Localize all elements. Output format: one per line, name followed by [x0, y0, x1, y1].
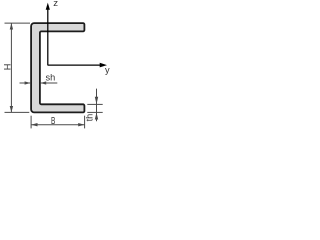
t dimension line — [96, 89, 98, 122]
svg-text:th: th — [85, 114, 95, 122]
svg-text:sh: sh — [46, 73, 56, 83]
t dimension extension line lower — [87, 111, 102, 113]
z axis line — [47, 9, 49, 65]
svg-text:z: z — [53, 0, 58, 9]
t dimension arrow up — [95, 113, 98, 120]
B dimension extension line left — [30, 116, 32, 129]
B dimension arrow right — [78, 123, 84, 126]
y axis arrowhead — [100, 63, 107, 68]
t dimension extension line upper — [87, 103, 102, 105]
H dimension line — [10, 23, 12, 112]
B dimension extension line right — [84, 116, 86, 129]
s dimension right arrowhead — [40, 81, 46, 84]
H dimension extension line bottom — [5, 111, 30, 113]
channel section C-profile — [31, 23, 84, 112]
H dimension extension line top — [5, 22, 31, 24]
B dimension line — [31, 124, 85, 126]
s dimension left arrow line — [20, 82, 31, 84]
s dimension left arrowhead — [25, 81, 31, 84]
B dimension arrow left — [31, 123, 37, 126]
t dimension arrow down — [95, 97, 98, 105]
z axis arrowhead — [46, 3, 50, 10]
s dimension right leader line — [41, 82, 58, 84]
svg-text:B: B — [51, 114, 55, 126]
H dimension arrow down — [10, 106, 13, 112]
y axis line — [48, 64, 100, 66]
svg-text:H: H — [3, 64, 13, 71]
svg-text:y: y — [105, 65, 110, 75]
H dimension arrow up — [10, 23, 13, 29]
